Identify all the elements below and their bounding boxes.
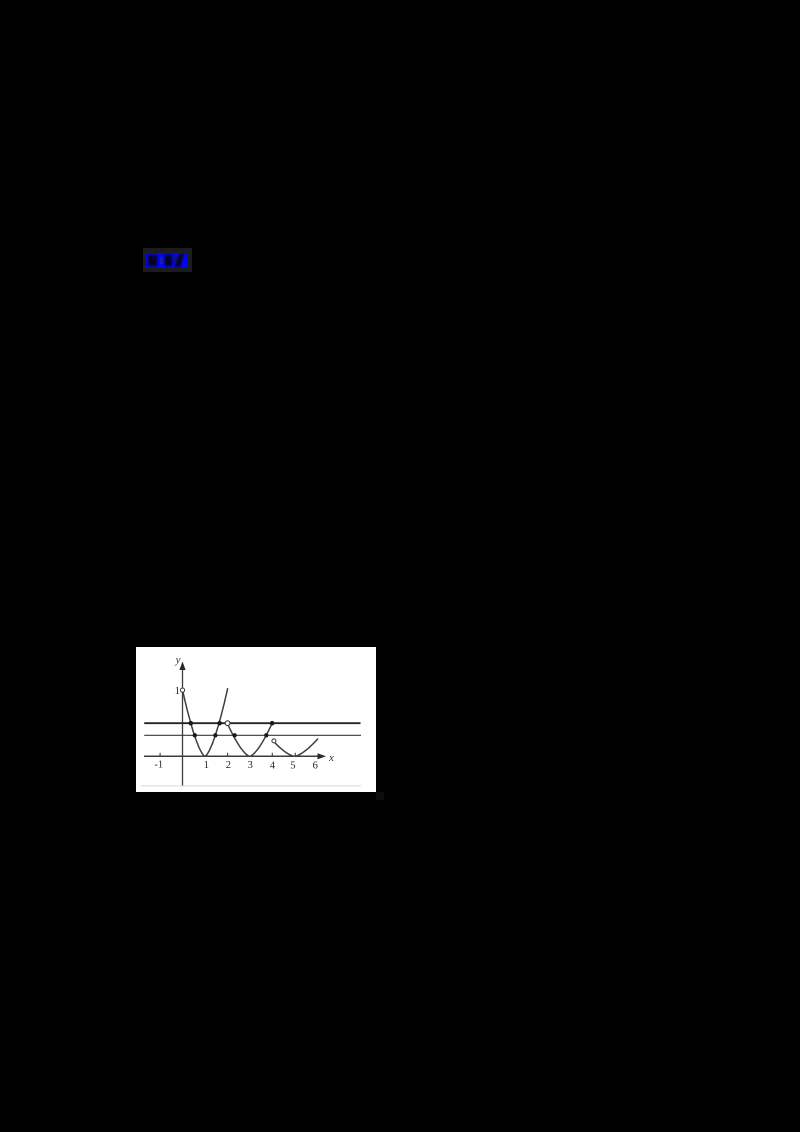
y-axis: [179, 662, 185, 786]
filled dot lower line 1: [193, 733, 197, 737]
curve piece 1: y=|x-1|^1.5 on [0,2]: [183, 688, 228, 756]
filled dot lower line 3: [232, 733, 236, 737]
tick x=5: [294, 753, 296, 757]
horizontal line y=1/3: [144, 734, 361, 736]
svg-text:4: 4: [270, 761, 276, 772]
svg-text:6: 6: [313, 761, 318, 772]
x-axis: [144, 753, 326, 759]
svg-text:x: x: [328, 752, 334, 764]
svg-text:3: 3: [248, 760, 253, 771]
open circle at (4,1/4): [272, 739, 276, 743]
blue highlighted label: [145, 253, 187, 268]
svg-text:-1: -1: [154, 760, 163, 771]
curve piece 3: y=0.25|x-5|^1.5 on [4,6]: [274, 739, 318, 757]
svg-text:1: 1: [175, 686, 180, 697]
white graph image box: [136, 647, 376, 792]
svg-text:1: 1: [204, 760, 209, 771]
tick x=4: [271, 753, 273, 757]
faint line near bottom of image: [141, 785, 361, 787]
svg-text:2: 2: [226, 760, 231, 771]
filled dot lower line 4: [264, 733, 268, 737]
highlight band (dark gray) around blue label: [143, 248, 192, 272]
tick x=2: [227, 753, 229, 757]
tick x=-1: [159, 753, 161, 757]
svg-text:5: 5: [290, 761, 295, 772]
small dark mark below graph image: [376, 792, 384, 800]
svg-text:y: y: [175, 654, 181, 666]
curve piece 2: y=0.5|x-3|^1.5 on [2,4]: [227, 723, 272, 756]
open circle at (0,1): [180, 688, 184, 692]
filled dot upper line right: [217, 721, 222, 726]
filled dot upper line x=4: [270, 721, 275, 726]
open circle at (2,1/2): [225, 721, 230, 726]
horizontal line y=1/2: [144, 722, 360, 724]
filled dot lower line 2: [213, 733, 217, 737]
filled dot upper line left: [189, 721, 194, 726]
